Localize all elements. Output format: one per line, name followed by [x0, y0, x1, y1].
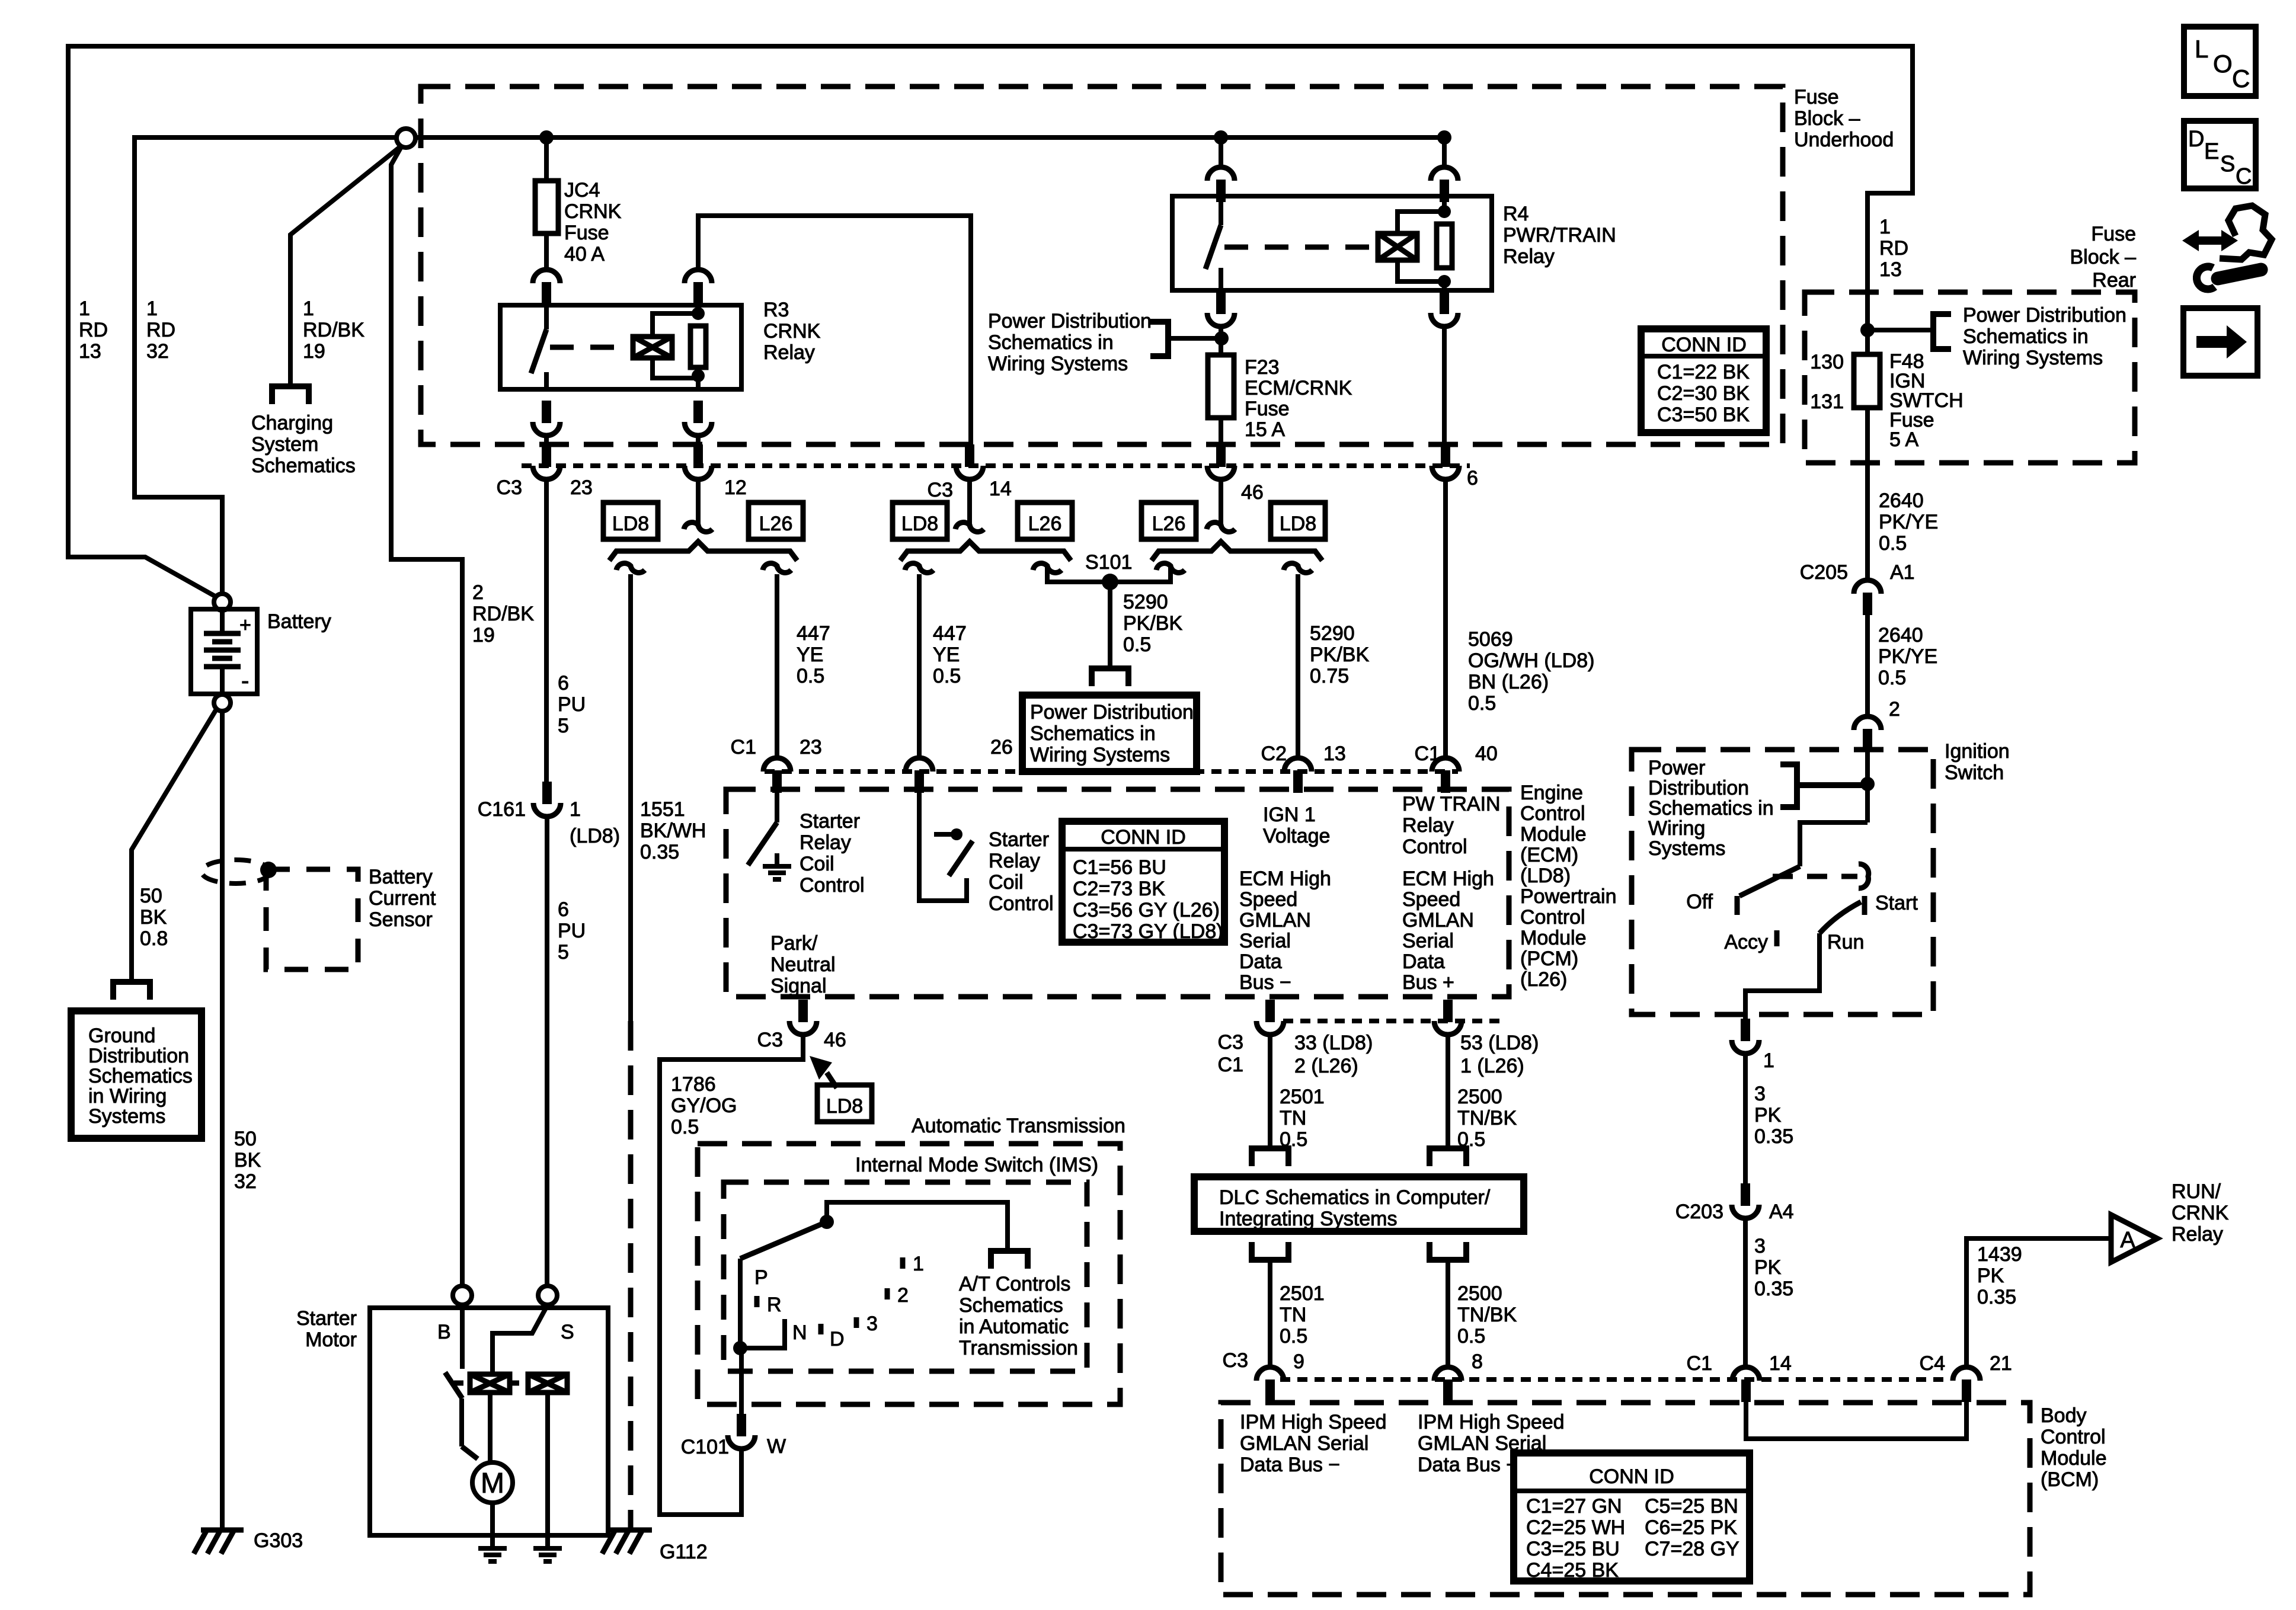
- svg-text:D: D: [2188, 127, 2204, 152]
- connector ECM pin 53/1: [1443, 1000, 1453, 1022]
- svg-text:C101: C101: [681, 1436, 729, 1458]
- starter S terminal ring: [538, 1286, 557, 1305]
- svg-text:Ignition: Ignition: [1945, 740, 2010, 763]
- svg-text:Bus −: Bus −: [1239, 971, 1291, 994]
- junction dot F23 tap: [1214, 331, 1229, 345]
- wire C205 to ignition switch: [1865, 615, 1870, 716]
- svg-text:0.5: 0.5: [933, 665, 961, 687]
- svg-text:50: 50: [140, 885, 162, 907]
- svg-text:Module: Module: [1520, 927, 1587, 949]
- Ignition Switch dashed box: [1632, 750, 1933, 1014]
- svg-text:19: 19: [472, 624, 495, 646]
- wire 447 YE 0.5 #2: [917, 574, 922, 758]
- break hook pin 14: [955, 523, 984, 532]
- svg-text:Schematics in: Schematics in: [1030, 722, 1156, 745]
- svg-text:Schematics: Schematics: [88, 1065, 193, 1087]
- svg-text:PU: PU: [558, 920, 586, 942]
- svg-text:Sensor: Sensor: [369, 908, 433, 931]
- svg-text:GMLAN Serial: GMLAN Serial: [1240, 1432, 1368, 1455]
- svg-text:C7=28 GY: C7=28 GY: [1645, 1538, 1739, 1560]
- break hook 5290 wire: [1284, 564, 1312, 573]
- svg-text:OG/WH (LD8): OG/WH (LD8): [1468, 649, 1594, 672]
- svg-text:Automatic Transmission: Automatic Transmission: [912, 1115, 1125, 1137]
- charging system reference bracket: [272, 386, 309, 404]
- wire 2500 TN/BK 0.5 upper: [1446, 1035, 1450, 1148]
- connector C203 pin A4: [1741, 1183, 1750, 1206]
- DESC icon box: [2184, 121, 2256, 188]
- break hook 447 wire #2: [905, 564, 933, 573]
- connector R3 pin coil in: [685, 270, 712, 283]
- starter solenoid switch from B: [460, 1305, 465, 1369]
- svg-text:Schematics: Schematics: [959, 1294, 1063, 1317]
- svg-text:2501: 2501: [1280, 1086, 1325, 1108]
- svg-text:Speed: Speed: [1239, 888, 1297, 911]
- svg-text:L: L: [2195, 35, 2208, 63]
- R4 resistor: [1437, 224, 1452, 268]
- svg-text:21: 21: [1990, 1352, 2012, 1375]
- svg-text:YE: YE: [933, 644, 960, 666]
- fine dash connector line ECM bottom: [1283, 1019, 1505, 1023]
- svg-text:2500: 2500: [1457, 1282, 1502, 1305]
- svg-text:C4: C4: [1920, 1352, 1945, 1375]
- svg-text:RD: RD: [1879, 237, 1908, 260]
- junction dot ignition feed: [1860, 777, 1875, 791]
- svg-text:Serial: Serial: [1402, 930, 1454, 952]
- svg-text:Power Distribution: Power Distribution: [1030, 701, 1194, 724]
- wire 5290 PK/BK 0.75: [1296, 574, 1300, 758]
- connector ECM C1 pin 23: [763, 758, 791, 772]
- DLC reference bracket right: [1430, 1148, 1466, 1166]
- CONN ID table BCM: [1514, 1453, 1750, 1581]
- svg-text:Relay: Relay: [1503, 245, 1555, 268]
- svg-text:0.5: 0.5: [1878, 667, 1906, 689]
- svg-text:in Automatic: in Automatic: [959, 1315, 1069, 1338]
- svg-text:C3=25 BU: C3=25 BU: [1526, 1538, 1620, 1560]
- wire S winding to ground: [545, 1393, 550, 1548]
- svg-text:JC4: JC4: [564, 179, 600, 201]
- svg-text:PU: PU: [558, 693, 586, 716]
- svg-text:PK/YE: PK/YE: [1878, 645, 1937, 668]
- svg-text:Module: Module: [1520, 823, 1587, 846]
- svg-text:PK: PK: [1754, 1104, 1782, 1126]
- battery current sensor dot: [260, 862, 277, 878]
- svg-text:13: 13: [1323, 742, 1346, 765]
- svg-text:ECM High: ECM High: [1402, 868, 1494, 890]
- connector R3 pin 1 (switch in): [533, 270, 560, 283]
- arrow glyph: [2196, 325, 2247, 359]
- svg-text:Integrating Systems: Integrating Systems: [1219, 1208, 1397, 1230]
- svg-text:PK/BK: PK/BK: [1123, 612, 1182, 635]
- R4 node top: [1438, 205, 1451, 218]
- svg-text:R: R: [767, 1294, 782, 1316]
- ECM starter relay coil control switch 1: [775, 793, 779, 822]
- wire pin 14 to brace: [967, 479, 972, 524]
- svg-text:Wiring Systems: Wiring Systems: [1963, 347, 2103, 369]
- svg-text:CONN ID: CONN ID: [1661, 334, 1747, 356]
- LD8 variant arrow: [810, 1056, 832, 1080]
- svg-text:DLC Schematics in Computer/: DLC Schematics in Computer/: [1219, 1186, 1491, 1209]
- wire C161 to starter S: [545, 817, 549, 1286]
- svg-text:C1=27 GN: C1=27 GN: [1526, 1495, 1622, 1518]
- connector C101 pin W: [737, 1414, 746, 1436]
- DLC Schematics box: [1194, 1177, 1524, 1231]
- svg-text:C2: C2: [1261, 742, 1287, 765]
- svg-text:PK: PK: [1754, 1256, 1782, 1279]
- svg-text:6: 6: [558, 898, 569, 921]
- svg-text:A/T Controls: A/T Controls: [959, 1273, 1070, 1295]
- svg-text:23: 23: [570, 476, 593, 499]
- connector BCM pin 8: [1434, 1367, 1462, 1381]
- svg-text:Power Distribution: Power Distribution: [988, 310, 1152, 332]
- Automatic Transmission dashed box: [698, 1144, 1120, 1404]
- ground G112: [609, 1528, 652, 1533]
- connector R3 coil out: [693, 401, 703, 423]
- svg-text:C1: C1: [731, 736, 756, 758]
- svg-text:23: 23: [800, 736, 822, 758]
- svg-text:5069: 5069: [1468, 628, 1513, 651]
- svg-text:TN/BK: TN/BK: [1457, 1107, 1517, 1129]
- IMS P node dot: [733, 1341, 747, 1355]
- svg-text:Signal: Signal: [770, 975, 827, 997]
- svg-text:33 (LD8): 33 (LD8): [1294, 1032, 1373, 1054]
- svg-text:C3=56 GY (L26): C3=56 GY (L26): [1073, 899, 1220, 921]
- svg-text:1 (L26): 1 (L26): [1460, 1055, 1524, 1077]
- svg-text:TN: TN: [1280, 1304, 1306, 1326]
- svg-text:Schematics in: Schematics in: [988, 331, 1114, 354]
- ignition switch blade: [1800, 822, 1868, 866]
- svg-text:32: 32: [146, 340, 169, 363]
- brace L26/LD8 split pin 14: [900, 542, 1071, 561]
- svg-text:447: 447: [797, 622, 830, 645]
- svg-text:Bus +: Bus +: [1402, 971, 1454, 994]
- svg-text:Powertrain: Powertrain: [1520, 885, 1617, 908]
- svg-text:GY/OG: GY/OG: [671, 1094, 737, 1117]
- break hook pin 12: [684, 523, 712, 532]
- ring junction battery feed node: [396, 129, 415, 148]
- break hook 447 wire #1: [763, 564, 791, 573]
- Accy contact tick: [1774, 930, 1780, 946]
- svg-text:Wiring Systems: Wiring Systems: [1030, 744, 1170, 766]
- R3 coil feed to pin 14: [698, 216, 971, 444]
- wire to S101 right: [1168, 574, 1173, 582]
- next-page arrow icon box: [2183, 308, 2257, 376]
- svg-text:PK: PK: [1977, 1265, 2004, 1287]
- svg-text:0.35: 0.35: [1977, 1286, 2016, 1308]
- service info icon (arrow + wrench): [2182, 230, 2238, 251]
- svg-text:1: 1: [913, 1253, 924, 1275]
- svg-text:L26: L26: [759, 513, 793, 535]
- svg-text:Start: Start: [1875, 892, 1918, 914]
- svg-text:Relay: Relay: [1402, 814, 1454, 837]
- svg-text:0.5: 0.5: [1468, 692, 1496, 715]
- Power Distribution Schematics box (S101): [1022, 695, 1197, 772]
- svg-text:LD8: LD8: [1280, 513, 1316, 535]
- wire 1 RD 32 (battery feed to underhood bus): [135, 137, 396, 594]
- relay R4 PWR/TRAIN: [1172, 196, 1492, 290]
- battery negative terminal ring: [214, 694, 231, 711]
- R3 resistor: [690, 326, 706, 367]
- svg-text:Switch: Switch: [1945, 761, 2004, 784]
- Internal Mode Switch dashed box: [724, 1182, 1087, 1371]
- tag L26 #3: [1141, 502, 1196, 539]
- battery current sensor dashed box: [266, 869, 358, 969]
- wire motor to ground: [490, 1503, 495, 1548]
- Fuse Block - Rear dashed box: [1805, 292, 2135, 463]
- Fuse Block - Underhood dashed box: [421, 87, 1783, 444]
- wire pin 12 to brace: [696, 479, 701, 524]
- svg-text:Transmission: Transmission: [959, 1337, 1078, 1359]
- tag LD8 #3: [1271, 502, 1325, 539]
- svg-text:0.35: 0.35: [1754, 1278, 1793, 1300]
- svg-text:447: 447: [933, 622, 967, 645]
- winding link dash left: [454, 1381, 470, 1386]
- svg-text:S: S: [561, 1321, 574, 1343]
- svg-text:Speed: Speed: [1402, 888, 1460, 911]
- svg-text:Off: Off: [1686, 891, 1713, 913]
- R4 switch: [1219, 196, 1223, 225]
- svg-text:GMLAN: GMLAN: [1239, 909, 1311, 932]
- connector C205 pin A1: [1854, 580, 1881, 594]
- svg-text:15 A: 15 A: [1245, 418, 1285, 441]
- svg-text:Relay: Relay: [2172, 1223, 2223, 1246]
- svg-text:Schematics: Schematics: [251, 454, 356, 477]
- svg-text:3: 3: [1754, 1083, 1766, 1105]
- svg-text:(PCM): (PCM): [1520, 948, 1578, 970]
- svg-text:Block –: Block –: [2070, 246, 2137, 268]
- break hook S101 wire left: [1033, 564, 1061, 573]
- svg-text:YE: YE: [797, 644, 823, 666]
- svg-text:1: 1: [570, 798, 581, 821]
- tag L26 #1: [749, 502, 803, 539]
- svg-text:Ground: Ground: [88, 1025, 155, 1047]
- svg-text:Data: Data: [1402, 950, 1445, 973]
- svg-text:Fuse: Fuse: [1794, 86, 1839, 108]
- wire 50 BK 0.8: [132, 709, 216, 982]
- svg-text:6: 6: [558, 672, 569, 694]
- svg-text:C1=56 BU: C1=56 BU: [1073, 856, 1166, 879]
- wire 1551 BK/WH 0.35: [628, 574, 633, 1021]
- svg-text:Run: Run: [1827, 931, 1864, 953]
- svg-text:RD/BK: RD/BK: [472, 603, 534, 625]
- svg-text:Motor: Motor: [305, 1329, 357, 1351]
- svg-text:Distribution: Distribution: [1648, 777, 1749, 799]
- ground symbol inside ECM: [763, 864, 791, 869]
- svg-text:S101: S101: [1085, 551, 1132, 574]
- svg-text:RD/BK: RD/BK: [303, 319, 364, 341]
- svg-text:46: 46: [824, 1029, 846, 1051]
- wire pin 46 to brace: [1219, 479, 1223, 524]
- svg-text:A4: A4: [1769, 1201, 1794, 1223]
- battery cell plates: [220, 609, 225, 633]
- connector fuse block C3 pin 23: [542, 444, 551, 467]
- connector ignition switch pin 1: [1741, 1019, 1750, 1041]
- svg-text:Relay: Relay: [763, 341, 815, 364]
- svg-text:C2=30 BK: C2=30 BK: [1657, 382, 1750, 405]
- starter B terminal ring: [453, 1286, 472, 1305]
- svg-text:(ECM): (ECM): [1520, 844, 1578, 866]
- junction dot R4 coil tap: [1437, 130, 1451, 145]
- svg-text:Serial: Serial: [1239, 930, 1291, 952]
- svg-text:CRNK: CRNK: [763, 320, 821, 343]
- svg-text:ECM/CRNK: ECM/CRNK: [1245, 377, 1352, 399]
- wire F48 to C205: [1865, 408, 1870, 581]
- svg-text:2640: 2640: [1879, 489, 1924, 512]
- CONN ID table ECM: [1062, 821, 1224, 942]
- svg-text:-: -: [241, 668, 249, 694]
- winding link dash right: [510, 1381, 528, 1386]
- break hook pin 46: [1207, 523, 1235, 532]
- svg-text:BK: BK: [234, 1149, 261, 1172]
- svg-text:BN (L26): BN (L26): [1468, 671, 1549, 693]
- R3 node top: [692, 307, 705, 320]
- fine dash connector line fuse block bottom: [522, 463, 1470, 468]
- power distribution reference bracket S101: [1092, 668, 1128, 686]
- svg-text:RUN/: RUN/: [2172, 1180, 2221, 1203]
- svg-text:RD: RD: [79, 319, 108, 341]
- svg-text:ECM High: ECM High: [1239, 868, 1331, 890]
- tag LD8 #1: [603, 502, 658, 539]
- svg-text:Data Bus +: Data Bus +: [1418, 1454, 1518, 1476]
- power distribution bracket (F23): [1150, 322, 1168, 356]
- connector R4 coil out: [1440, 292, 1449, 314]
- svg-text:Module: Module: [2041, 1447, 2107, 1470]
- svg-text:0.5: 0.5: [1879, 532, 1907, 555]
- wire into ignition switch: [1865, 751, 1870, 822]
- Run-Start wiper curve: [1819, 902, 1861, 933]
- svg-text:Schematics in: Schematics in: [1648, 797, 1774, 820]
- fine dash connector line BCM top: [1280, 1377, 1950, 1382]
- svg-text:Underhood: Underhood: [1794, 129, 1894, 151]
- connector fuse block C3 pin 14: [965, 444, 974, 467]
- svg-text:C3: C3: [1218, 1031, 1243, 1054]
- svg-text:Battery: Battery: [267, 610, 331, 633]
- wire Run to pin 1: [1745, 933, 1819, 1020]
- R4 coil-resistor loop: [1398, 212, 1444, 233]
- Ground Distribution Schematics box: [71, 1011, 202, 1138]
- svg-text:(LD8): (LD8): [1520, 865, 1571, 887]
- svg-text:Relay: Relay: [800, 831, 851, 854]
- IMS R tick: [754, 1296, 760, 1307]
- wire stub: [544, 436, 549, 444]
- svg-text:E: E: [2204, 139, 2219, 164]
- splice S101: [1102, 574, 1118, 590]
- power distribution bracket (ignition): [1797, 782, 1866, 788]
- svg-text:C1=22 BK: C1=22 BK: [1657, 361, 1750, 383]
- svg-text:Engine: Engine: [1520, 782, 1583, 804]
- svg-text:40 A: 40 A: [564, 243, 605, 265]
- svg-text:Fuse: Fuse: [1245, 398, 1290, 420]
- wire to S101 left: [1045, 574, 1050, 582]
- wire 2501 TN 0.5 upper: [1268, 1035, 1272, 1148]
- svg-text:2 (L26): 2 (L26): [1294, 1055, 1358, 1077]
- connector fuse block pin 6: [1441, 444, 1450, 467]
- svg-text:Neutral: Neutral: [770, 953, 836, 976]
- junction dot F48 tap: [1860, 323, 1875, 337]
- break hook S101 wire right: [1156, 564, 1185, 573]
- svg-text:L26: L26: [1152, 513, 1186, 535]
- svg-text:C3=50 BK: C3=50 BK: [1657, 404, 1750, 426]
- svg-text:0.35: 0.35: [640, 841, 679, 863]
- R3 switch: [544, 305, 549, 329]
- svg-text:Data Bus −: Data Bus −: [1240, 1454, 1340, 1476]
- detent squiggle: [1859, 864, 1869, 888]
- svg-text:C1: C1: [1218, 1054, 1243, 1076]
- svg-text:Systems: Systems: [88, 1105, 165, 1128]
- A/T controls reference bracket: [991, 1251, 1028, 1269]
- tag L26 #2: [1018, 502, 1072, 539]
- svg-text:C3: C3: [497, 476, 522, 499]
- svg-text:6: 6: [1467, 467, 1478, 489]
- wire 5290 PK/BK 0.5: [1108, 582, 1112, 667]
- motor M: [472, 1462, 513, 1503]
- starter hold-in winding: [528, 1374, 567, 1393]
- svg-text:13: 13: [79, 340, 101, 363]
- svg-text:Control: Control: [1520, 906, 1585, 929]
- fine dash connector line ECM top: [765, 769, 1458, 774]
- svg-text:A: A: [2120, 1228, 2135, 1253]
- svg-text:Control: Control: [1402, 836, 1467, 858]
- wire 1786 GY/OG 0.5: [660, 1035, 803, 1515]
- svg-text:(BCM): (BCM): [2041, 1468, 2099, 1491]
- svg-text:CRNK: CRNK: [564, 200, 622, 223]
- svg-text:Starter: Starter: [800, 810, 860, 833]
- svg-text:Wiring: Wiring: [1648, 817, 1705, 840]
- wire R4 switch to F23: [1219, 327, 1223, 355]
- svg-text:(L26): (L26): [1520, 968, 1567, 991]
- svg-text:N: N: [792, 1321, 807, 1344]
- svg-text:CONN ID: CONN ID: [1589, 1465, 1674, 1488]
- svg-text:IPM High Speed: IPM High Speed: [1240, 1411, 1387, 1433]
- wire 1 RD/BK 19 to charging system: [290, 146, 401, 386]
- svg-text:Control: Control: [989, 892, 1054, 915]
- svg-text:TN/BK: TN/BK: [1457, 1304, 1517, 1326]
- relay R3 CRNK: [500, 305, 741, 389]
- svg-text:Charging: Charging: [251, 412, 333, 434]
- connector BCM C3 pin 9: [1256, 1367, 1284, 1381]
- connector fuse block pin 46: [1216, 444, 1226, 467]
- svg-text:BK: BK: [140, 906, 167, 929]
- junction dot JC4 tap: [539, 130, 554, 145]
- svg-text:C3: C3: [1223, 1349, 1248, 1372]
- svg-text:Fuse: Fuse: [2091, 223, 2136, 245]
- svg-text:Battery: Battery: [369, 866, 433, 888]
- svg-text:50: 50: [234, 1128, 257, 1150]
- brace L26/LD8 split pin 46: [1152, 542, 1322, 561]
- svg-text:Accy: Accy: [1724, 931, 1768, 953]
- tag LD8 #2: [893, 502, 947, 539]
- svg-text:C1: C1: [1415, 742, 1440, 765]
- svg-text:1: 1: [146, 297, 158, 320]
- ground starter motor: [478, 1546, 507, 1551]
- svg-text:130: 130: [1810, 351, 1844, 373]
- svg-text:C5=25 BN: C5=25 BN: [1645, 1495, 1738, 1518]
- BCM internal wire 14 to 21: [1746, 1402, 1966, 1439]
- svg-text:in Wiring: in Wiring: [88, 1085, 167, 1108]
- svg-text:Control: Control: [2041, 1426, 2106, 1448]
- wire 50 BK 32 to G303: [220, 711, 225, 1529]
- svg-text:1786: 1786: [671, 1073, 716, 1096]
- tag LD8 pointer: [817, 1085, 872, 1122]
- connector ECM C1 pin 40: [1432, 758, 1459, 772]
- svg-text:40: 40: [1475, 742, 1498, 765]
- wire JC4 to R3: [544, 233, 549, 270]
- svg-text:LD8: LD8: [826, 1095, 863, 1118]
- svg-text:C4=25 BK: C4=25 BK: [1526, 1559, 1619, 1582]
- Body Control Module dashed box: [1221, 1403, 2030, 1595]
- svg-text:LD8: LD8: [901, 513, 938, 535]
- svg-text:(LD8): (LD8): [570, 825, 620, 847]
- svg-text:Control: Control: [800, 874, 865, 897]
